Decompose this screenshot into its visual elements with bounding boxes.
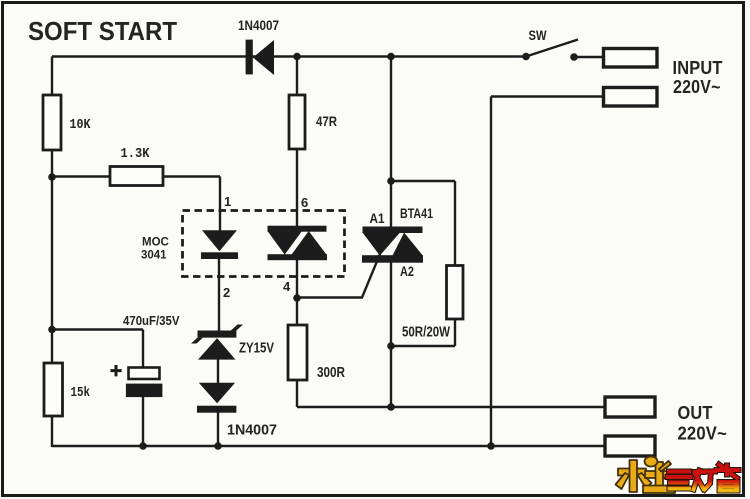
svg-text:INPUT: INPUT: [673, 57, 723, 78]
svg-text:2: 2: [223, 285, 230, 300]
svg-text:220V~: 220V~: [673, 76, 721, 97]
svg-text:SW: SW: [529, 28, 547, 43]
svg-text:470uF/35V: 470uF/35V: [123, 313, 180, 328]
svg-text:300R: 300R: [317, 365, 345, 381]
svg-text:A1: A1: [370, 210, 385, 226]
svg-text:4: 4: [283, 279, 291, 294]
svg-text:47R: 47R: [316, 113, 337, 129]
svg-text:BTA41: BTA41: [400, 205, 433, 221]
svg-text:A2: A2: [400, 263, 414, 279]
svg-text:MOC: MOC: [142, 237, 169, 249]
svg-text:220V~: 220V~: [678, 422, 728, 443]
svg-text:1: 1: [224, 194, 231, 209]
svg-text:ZY15V: ZY15V: [239, 341, 274, 357]
svg-text:SOFT START: SOFT START: [28, 16, 177, 46]
svg-text:3041: 3041: [141, 250, 167, 262]
svg-text:1N4007: 1N4007: [238, 17, 279, 33]
svg-text:50R/20W: 50R/20W: [402, 325, 450, 341]
svg-text:1.3K: 1.3K: [121, 146, 151, 162]
svg-text:6: 6: [301, 195, 308, 210]
svg-text:OUT: OUT: [678, 402, 713, 423]
svg-text:15k: 15k: [71, 385, 91, 401]
svg-text:1N4007: 1N4007: [227, 423, 277, 439]
svg-text:10K: 10K: [70, 117, 91, 133]
